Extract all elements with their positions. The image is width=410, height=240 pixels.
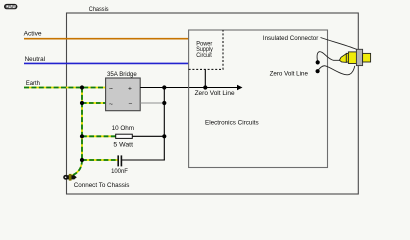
wire earth to capacitor left plate (82, 159, 118, 161)
bridge rectifier 35A Bridge (106, 71, 141, 111)
wire earth to resistor left lead (82, 135, 116, 137)
svg-text:Zero Volt Line: Zero Volt Line (270, 70, 309, 77)
wire Earth horizontal (green/yellow) (24, 87, 106, 89)
wire to connector pin (317, 52, 340, 63)
wire to connector barrel (318, 66, 355, 75)
junction dot power supply tap (203, 85, 207, 89)
capacitor 100nF (111, 155, 128, 175)
svg-text:~: ~ (109, 101, 113, 108)
svg-text:100nF: 100nF (111, 168, 128, 175)
arrowhead zero volt line (237, 85, 243, 90)
electronics circuits box (189, 30, 328, 168)
wire earth to bridge lower AC input (82, 102, 106, 104)
wire earth vertical bus (81, 88, 83, 161)
svg-text:−: − (129, 100, 133, 107)
power supply dashed box (189, 30, 223, 69)
wire Active (orange) (24, 38, 189, 40)
junction dots on earth bus (80, 85, 84, 162)
resistor 10 Ohm 5 Watt (112, 125, 135, 149)
wire Neutral (blue) (24, 62, 189, 64)
svg-text:Active: Active (24, 30, 42, 37)
wire capacitor right lead (122, 159, 165, 161)
wire power supply to zero volt line (204, 69, 206, 87)
svg-text:Earth: Earth (26, 80, 40, 87)
svg-text:10 Ohm: 10 Ohm (112, 125, 135, 132)
svg-text:Zero Volt Line: Zero Volt Line (195, 90, 235, 97)
wire right return bus vertical (163, 88, 165, 161)
wire bridge minus output (gray) (140, 102, 164, 104)
svg-text:Insulated Connector: Insulated Connector (263, 35, 319, 42)
leader line to connector (321, 38, 357, 50)
svg-text:Electronics Circuits: Electronics Circuits (205, 120, 259, 127)
watermark badge top-left (4, 4, 17, 9)
svg-text:Circuit: Circuit (196, 52, 212, 59)
svg-text:35A Bridge: 35A Bridge (107, 71, 137, 78)
terminal dot upper (316, 60, 320, 64)
svg-text:Chassis: Chassis (89, 6, 109, 13)
chassis enclosure box (67, 13, 359, 194)
svg-text:~: ~ (109, 86, 113, 93)
chassis connection lug (63, 174, 77, 181)
wire earth curve to chassis lug (72, 160, 83, 176)
svg-text:Neutral: Neutral (25, 56, 46, 63)
insulated connector (RCA jack through chassis wall) (339, 49, 370, 65)
junction dots on return bus (162, 85, 166, 138)
wire zero volt line from bridge plus output (140, 87, 238, 89)
wire resistor right lead (132, 135, 164, 137)
label Power Supply Circuit (196, 40, 213, 58)
svg-text:+: + (128, 85, 132, 92)
terminal dot lower (316, 69, 320, 73)
svg-text:5 Watt: 5 Watt (113, 141, 133, 148)
svg-text:Connect To Chassis: Connect To Chassis (74, 182, 130, 189)
